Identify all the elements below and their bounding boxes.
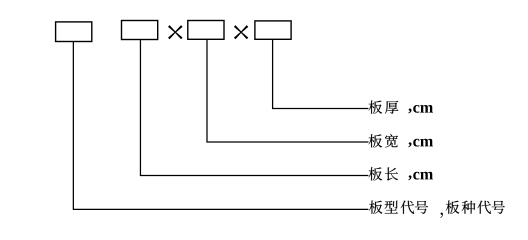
leader line from box 2 to label 板长,cm	[140, 40, 368, 176]
"cm" unit text of "板长,cm"	[413, 172, 419, 180]
fullwidth comma of "板型代号,板种代号"	[440, 213, 443, 218]
leader line from box 4 to label 板厚,cm	[273, 39, 369, 108]
label text 代 of "板型代号,板种代号" (second group)	[478, 201, 491, 214]
box 3 (board width field)	[188, 21, 224, 40]
"cm" unit text of "板厚,cm"	[413, 105, 419, 113]
"cm" unit text of "板宽,cm"	[413, 139, 419, 147]
label text 号 of "板型代号,板种代号" (second group)	[492, 201, 505, 214]
box 1 (board type/kind code field)	[56, 22, 92, 42]
label text 种 of "板型代号,板种代号" (second group)	[462, 201, 476, 214]
label text 长 of "板长,cm"	[385, 167, 398, 180]
label text 代 of "板型代号,板种代号"	[401, 201, 414, 214]
comma of "板宽,cm"	[408, 142, 411, 147]
multiplication sign 2	[234, 25, 248, 39]
comma of "板厚,cm"	[408, 109, 411, 114]
leader line from box 3 to label 板宽,cm	[207, 39, 368, 142]
label text 厚 of "板厚,cm"	[385, 101, 398, 114]
label text 号 of "板型代号,板种代号"	[415, 201, 428, 214]
label text 型 of "板型代号,板种代号"	[385, 201, 398, 214]
box 2 (board length field)	[122, 21, 158, 40]
label text 板 of "板型代号,板种代号"	[369, 201, 382, 214]
label text 板 of "板长,cm"	[369, 167, 382, 180]
label text 板 of "板宽,cm"	[369, 134, 382, 147]
box 4 (board thickness field)	[255, 21, 291, 39]
label text 板 of "板型代号,板种代号" (second group)	[446, 201, 459, 214]
multiplication sign 1	[168, 25, 183, 39]
label text 宽 of "板宽,cm"	[385, 134, 398, 147]
comma of "板长,cm"	[408, 175, 411, 180]
label text 板 of "板厚,cm"	[369, 100, 382, 113]
leader line from box 1 to label 板型代号,板种代号	[73, 42, 368, 210]
